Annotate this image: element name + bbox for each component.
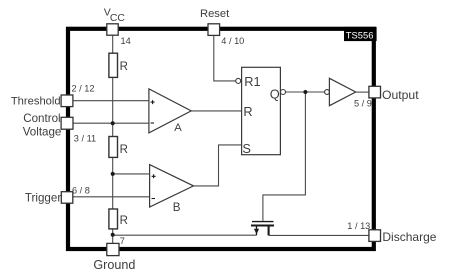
pin bubble: Q output — [281, 90, 286, 95]
resistor R (top) — [109, 53, 128, 77]
svg-text:Threshold: Threshold — [11, 95, 61, 107]
wire: chain segment 4 — [112, 229, 114, 244]
wire: VCC chain segment 1 — [112, 35, 114, 53]
svg-text:Voltage: Voltage — [23, 125, 62, 138]
wire: threshold to comparator A + — [73, 100, 149, 102]
svg-text:5 / 9: 5 / 9 — [354, 99, 372, 109]
svg-text:4 / 10: 4 / 10 — [221, 36, 244, 46]
transistor Q1 source stub with arrow — [254, 226, 259, 235]
wire: Q output to buffer — [286, 91, 325, 93]
svg-text:B: B — [173, 201, 181, 214]
TS556 label box — [344, 27, 377, 41]
pin bubble: buffer input — [325, 90, 330, 95]
wire: buffer output to Output pin — [356, 91, 369, 93]
resistor R (middle) — [109, 137, 128, 158]
transistor Q1 (discharge MOSFET) gate plate — [252, 221, 274, 223]
wire: Q to transistor gate — [263, 92, 306, 221]
svg-text:R1: R1 — [244, 74, 260, 89]
pin box: Discharge 1/13 — [369, 230, 381, 242]
svg-text:A: A — [174, 122, 182, 134]
svg-text:Reset: Reset — [200, 8, 230, 20]
wire: reset to R1 input — [214, 35, 236, 81]
wire: comparator B output — [194, 145, 242, 186]
transistor Q1 channel plate — [251, 225, 274, 227]
svg-text:TS556: TS556 — [346, 29, 374, 40]
wire: trigger to comparator B - — [73, 196, 150, 198]
flip-flop U1 — [242, 67, 281, 156]
buffer (output stage) — [329, 78, 355, 105]
svg-text:R: R — [243, 104, 252, 119]
svg-text:3 / 11: 3 / 11 — [74, 134, 96, 144]
pin box: Output 5/9 — [369, 86, 381, 98]
svg-text:2 / 12: 2 / 12 — [72, 83, 95, 93]
pin box: Control Voltage 3/11 — [61, 117, 73, 129]
wire: transistor drain to Discharge pin — [269, 234, 369, 236]
pin box: Trigger 6/8 — [61, 192, 73, 204]
svg-text:Control: Control — [23, 112, 60, 125]
wire: chain segment 3 — [112, 157, 114, 209]
svg-text:6 / 8: 6 / 8 — [72, 185, 90, 195]
node: ground junction — [111, 233, 115, 237]
svg-text:CC: CC — [110, 13, 126, 24]
svg-text:Output: Output — [382, 88, 419, 102]
label VCC — [104, 7, 126, 24]
pin box: VCC 14 — [107, 24, 118, 35]
svg-text:Ground: Ground — [93, 258, 135, 272]
wire: control voltage to comparator A - — [73, 122, 149, 124]
svg-text:R: R — [120, 61, 128, 73]
svg-text:R: R — [120, 215, 128, 227]
IC outline — [68, 29, 374, 249]
wire: divider tap to comparator B + — [113, 173, 150, 175]
node: Q output junction — [303, 90, 307, 94]
pin box: Ground 7 — [107, 243, 119, 255]
wire: chain segment 2 — [112, 77, 114, 136]
pin box: Threshold 2/12 — [61, 95, 73, 107]
node: control voltage tap — [111, 121, 115, 125]
pin box: Reset 4/10 — [208, 24, 220, 36]
svg-text:7: 7 — [120, 236, 125, 246]
svg-text:R: R — [120, 144, 128, 156]
wire: ground junction to transistor source — [113, 234, 257, 236]
svg-text:1 / 13: 1 / 13 — [347, 221, 370, 231]
op-amp B (trigger comparator) — [150, 165, 194, 214]
node: comparator B tap — [111, 172, 115, 176]
resistor R (bottom) — [109, 209, 128, 229]
wire: comparator A output to R input — [191, 110, 241, 112]
transistor Q1 drain stub — [268, 226, 270, 235]
svg-text:Q: Q — [270, 86, 280, 101]
svg-text:Discharge: Discharge — [382, 230, 436, 244]
svg-text:Trigger: Trigger — [25, 191, 61, 204]
op-amp A (threshold comparator) — [149, 89, 191, 134]
pin bubble: R1 input — [236, 78, 241, 83]
svg-text:14: 14 — [121, 36, 131, 46]
svg-text:S: S — [242, 141, 251, 156]
label Control Voltage — [23, 112, 62, 138]
